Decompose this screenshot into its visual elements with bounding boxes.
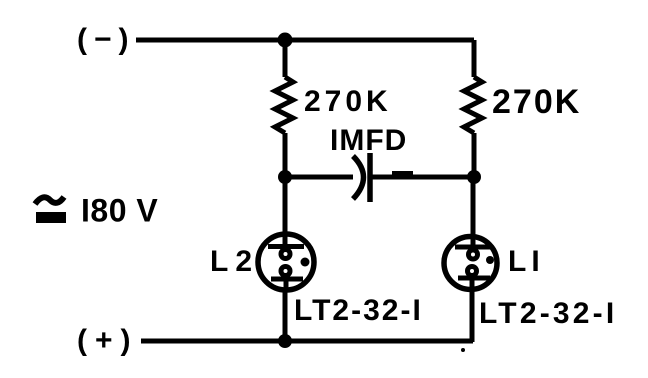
capacitor 1MFD	[353, 153, 370, 202]
svg-text:270K: 270K	[304, 85, 392, 118]
svg-text:LT2-32-I: LT2-32-I	[294, 294, 423, 327]
wire L2 branch upper	[283, 177, 288, 234]
label approx 180V source	[35, 193, 158, 229]
node right mid junction	[467, 170, 481, 184]
wire L2 branch lower	[283, 291, 288, 341]
wire L1 branch upper	[471, 177, 476, 235]
wire middle left segment	[285, 175, 353, 180]
lamp L1	[444, 236, 497, 291]
node top junction	[278, 33, 293, 48]
svg-text:LI: LI	[508, 245, 545, 278]
lamp L2	[258, 234, 314, 291]
wire right branch lower	[472, 133, 477, 177]
wire bottom bus	[141, 339, 473, 344]
svg-text:(−): (−)	[77, 23, 136, 56]
svg-text:LT2-32-I: LT2-32-I	[479, 297, 617, 330]
wire middle right segment	[370, 175, 474, 180]
svg-text:(+): (+)	[77, 324, 139, 357]
svg-text:270K: 270K	[492, 83, 581, 121]
resistor 270K right	[464, 77, 482, 133]
resistor 270K left	[275, 77, 293, 133]
wire overdraw dash	[392, 171, 413, 177]
wire L1 branch lower	[470, 291, 475, 342]
svg-text:I80 V: I80 V	[81, 193, 158, 229]
wire top bus	[136, 38, 474, 43]
speck	[461, 348, 465, 352]
node left mid junction	[278, 170, 292, 184]
svg-text:IMFD: IMFD	[330, 124, 407, 157]
svg-text:L2: L2	[210, 245, 259, 278]
wire right branch down from corner	[472, 40, 477, 77]
node bottom junction	[278, 334, 292, 348]
wire left branch upper	[283, 40, 288, 77]
wire left branch lower	[283, 133, 288, 177]
